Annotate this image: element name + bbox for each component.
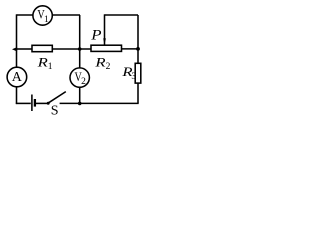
svg-text:3: 3 — [131, 72, 136, 82]
svg-text:1: 1 — [44, 15, 49, 25]
svg-text:S: S — [51, 104, 59, 117]
svg-text:2: 2 — [106, 62, 111, 72]
svg-text:A: A — [12, 70, 23, 85]
svg-text:R: R — [36, 56, 47, 70]
svg-text:2: 2 — [81, 77, 86, 87]
svg-text:1: 1 — [48, 62, 53, 72]
svg-text:R: R — [94, 56, 105, 70]
svg-text:P: P — [90, 27, 102, 43]
